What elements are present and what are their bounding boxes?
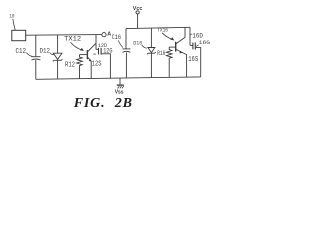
svg-text:R12: R12 — [65, 61, 75, 69]
svg-text:12G: 12G — [103, 48, 112, 55]
gate wire to ground rail — [101, 54, 110, 78]
collector vertical — [184, 27, 186, 37]
C12 top lead — [35, 35, 37, 56]
C12 leader — [27, 53, 33, 57]
zener D16 bar — [147, 52, 156, 54]
TX12 base lead — [80, 54, 87, 56]
ground bar — [117, 84, 124, 86]
drain lead 16D — [189, 27, 191, 45]
zener D12 bottom lead — [57, 60, 59, 79]
top rail Vcc — [126, 27, 190, 28]
TX16 arrow — [162, 33, 173, 40]
terminal A circle — [102, 33, 106, 37]
svg-text:C16: C16 — [112, 34, 122, 41]
svg-text:16S: 16S — [188, 56, 198, 64]
Vcc terminal circle — [136, 11, 139, 14]
zener D12 triangle — [53, 53, 62, 59]
bottom rail Vss — [36, 77, 201, 79]
tick drain to capacitor — [96, 48, 98, 50]
C16 leader — [118, 40, 123, 47]
TX16 emitter arrowhead — [179, 51, 182, 53]
svg-text:12S: 12S — [92, 60, 102, 68]
gate capacitor right bar — [194, 43, 196, 50]
svg-text:TX16: TX16 — [157, 28, 168, 34]
svg-text:2B: 2B — [114, 96, 133, 111]
transistor TX16 base bar — [175, 42, 177, 52]
drain vertical 12D — [95, 35, 97, 50]
C12 bottom lead — [35, 60, 37, 79]
svg-text:10: 10 — [9, 12, 15, 19]
C16 bottom lead — [125, 52, 127, 78]
ground hatching — [118, 86, 124, 89]
16D leader tick — [190, 33, 192, 35]
C16 top lead — [125, 29, 127, 49]
ground stub — [119, 78, 121, 85]
svg-text:16G: 16G — [199, 40, 210, 46]
svg-text:R16: R16 — [157, 50, 165, 57]
svg-text:D16: D16 — [133, 40, 142, 47]
TX12 collector (to drain node) — [88, 43, 96, 51]
leader line from 10 to box — [13, 19, 15, 30]
gate capacitor right bar — [100, 48, 102, 55]
svg-text:Vss: Vss — [115, 89, 124, 95]
capacitor C16 top plate — [122, 48, 130, 50]
zener D16 triangle — [148, 48, 155, 53]
zener D16 top lead — [150, 28, 152, 47]
capacitor C16 bottom plate — [123, 50, 131, 53]
D16 leader — [142, 45, 147, 48]
small tick near source — [93, 53, 96, 55]
svg-text:TX12: TX12 — [64, 36, 81, 43]
TX12 arrow — [71, 42, 83, 50]
wire: box to terminal A (left top rail) — [26, 34, 102, 37]
TX12 emitter — [88, 57, 91, 78]
resistor R12 — [77, 55, 83, 79]
tick drain to capacitor — [190, 44, 193, 46]
svg-text:D12: D12 — [40, 48, 51, 55]
TX16 base lead — [169, 46, 175, 48]
box 12 (input block) — [12, 30, 26, 40]
svg-text:FIG.: FIG. — [73, 96, 106, 111]
transistor TX12 base bar — [86, 50, 88, 59]
gate capacitor left bar — [98, 48, 100, 55]
zener D12 bar — [53, 59, 63, 61]
D12 leader — [50, 53, 55, 55]
out wire to rail — [195, 48, 200, 77]
zener D12 top lead — [57, 35, 59, 53]
TX16 collector — [176, 37, 185, 43]
TX16 emitter — [176, 49, 187, 77]
resistor R16 — [166, 47, 172, 77]
16G leader — [196, 45, 199, 47]
zener D16 bottom lead — [150, 53, 152, 77]
capacitor C12 top plate — [31, 56, 40, 58]
Vcc lead — [137, 14, 139, 28]
svg-text:16D: 16D — [192, 33, 203, 40]
capacitor C12 bottom plate — [31, 59, 40, 60]
TX12 emitter arrowhead — [89, 59, 92, 62]
gate capacitor left bar — [192, 43, 194, 50]
svg-text:C12: C12 — [16, 48, 27, 56]
